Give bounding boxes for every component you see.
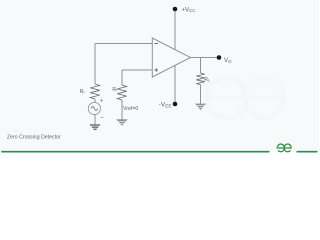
svg-text:Zero Crossing Detector: Zero Crossing Detector [7, 134, 61, 140]
svg-text:+VCC: +VCC [182, 7, 197, 13]
svg-text:Ri: Ri [80, 89, 85, 95]
svg-text:Vref=0: Vref=0 [123, 106, 138, 112]
svg-text:RL: RL [204, 77, 211, 83]
svg-text:VO: VO [224, 58, 232, 64]
